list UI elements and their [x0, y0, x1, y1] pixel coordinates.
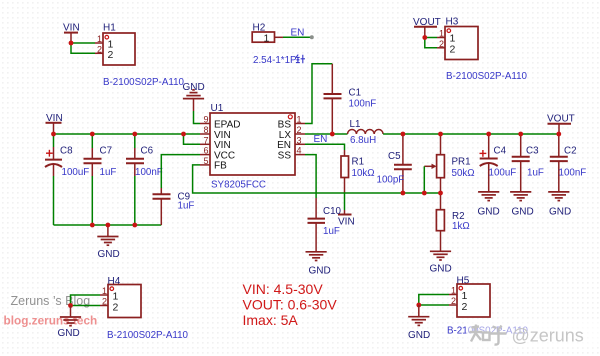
svg-text:C3: C3 [526, 146, 539, 157]
svg-text:FB: FB [214, 161, 227, 172]
svg-text:100nF: 100nF [349, 99, 377, 110]
svg-text:EPAD: EPAD [214, 119, 241, 130]
svg-text:SY8205FCC: SY8205FCC [211, 180, 266, 191]
svg-text:2: 2 [113, 302, 119, 314]
svg-text:2: 2 [451, 296, 456, 306]
svg-text:EN: EN [314, 134, 328, 145]
svg-text:1uF: 1uF [100, 167, 117, 178]
svg-text:@zeruns: @zeruns [512, 326, 584, 346]
svg-text:GND: GND [58, 328, 80, 339]
svg-text:2: 2 [462, 301, 468, 313]
svg-text:100uF: 100uF [62, 167, 90, 178]
svg-text:B-2100S02P-A110: B-2100S02P-A110 [107, 330, 189, 341]
svg-text:C4: C4 [494, 146, 507, 157]
svg-text:1: 1 [97, 34, 102, 44]
svg-text:GND: GND [183, 82, 205, 93]
svg-text:2: 2 [108, 49, 114, 61]
svg-text:2.54-1*1P: 2.54-1*1P [253, 55, 297, 66]
svg-text:GND: GND [512, 207, 534, 218]
svg-text:2: 2 [439, 39, 444, 49]
svg-text:blog.zeruns.tech: blog.zeruns.tech [4, 314, 98, 328]
svg-text:EN: EN [291, 28, 305, 39]
svg-text:7: 7 [203, 135, 208, 145]
svg-text:VIN: 4.5-30V: VIN: 4.5-30V [243, 281, 324, 297]
svg-text:C1: C1 [349, 88, 362, 99]
svg-text:PR1: PR1 [452, 157, 471, 168]
svg-text:2: 2 [450, 44, 456, 56]
svg-text:C5: C5 [388, 151, 401, 162]
svg-text:1: 1 [297, 115, 302, 125]
svg-text:5: 5 [203, 156, 208, 166]
svg-text:L1: L1 [350, 119, 361, 130]
svg-text:1uF: 1uF [527, 168, 544, 179]
svg-text:50kΩ: 50kΩ [452, 168, 475, 179]
svg-text:C2: C2 [564, 146, 577, 157]
svg-text:B-2100S02P-A110: B-2100S02P-A110 [446, 71, 528, 82]
svg-text:C10: C10 [323, 206, 342, 217]
svg-text:100pF: 100pF [377, 175, 405, 186]
svg-text:H1: H1 [103, 23, 116, 34]
svg-text:VOUT: 0.6-30V: VOUT: 0.6-30V [243, 297, 338, 313]
svg-text:U1: U1 [211, 103, 224, 114]
svg-text:C7: C7 [100, 146, 113, 157]
svg-text:6.8uH: 6.8uH [350, 135, 376, 146]
svg-text:C8: C8 [60, 146, 73, 157]
svg-text:C6: C6 [141, 146, 154, 157]
svg-text:GND: GND [408, 330, 430, 341]
svg-text:2: 2 [297, 125, 302, 135]
svg-text:1uF: 1uF [323, 226, 340, 237]
svg-text:BS: BS [278, 119, 292, 130]
svg-text:2: 2 [102, 297, 107, 307]
svg-text:6: 6 [203, 146, 208, 156]
svg-text:B-2100S02P-A110: B-2100S02P-A110 [103, 77, 185, 88]
svg-text:R1: R1 [352, 157, 365, 168]
svg-text:1: 1 [264, 32, 270, 44]
svg-text:GND: GND [430, 264, 452, 275]
svg-text:GND: GND [549, 207, 571, 218]
svg-text:1uF: 1uF [178, 201, 195, 212]
svg-text:9: 9 [203, 115, 208, 125]
svg-text:100nF: 100nF [135, 167, 163, 178]
svg-text:GND: GND [478, 207, 500, 218]
svg-text:8: 8 [203, 125, 208, 135]
svg-text:1: 1 [102, 286, 107, 296]
svg-text:4: 4 [297, 146, 302, 156]
svg-text:SS: SS [278, 150, 292, 161]
svg-text:H3: H3 [446, 17, 459, 28]
svg-text:GND: GND [98, 249, 120, 260]
svg-text:1kΩ: 1kΩ [452, 221, 470, 232]
svg-text:VIN: VIN [338, 217, 355, 228]
svg-text:Imax: 5A: Imax: 5A [243, 312, 299, 328]
svg-text:1: 1 [439, 29, 444, 39]
svg-text:2: 2 [97, 44, 102, 54]
svg-text:100uF: 100uF [489, 168, 517, 179]
svg-text:GND: GND [309, 266, 331, 277]
svg-text:3: 3 [297, 135, 302, 145]
svg-text:100nF: 100nF [559, 168, 587, 179]
svg-text:1: 1 [451, 286, 456, 296]
svg-text:10kΩ: 10kΩ [352, 168, 375, 179]
